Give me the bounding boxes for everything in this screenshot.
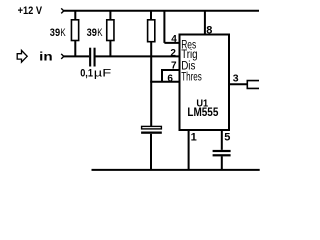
svg-text:3: 3 bbox=[233, 73, 239, 85]
svg-text:4: 4 bbox=[171, 34, 177, 45]
svg-text:Trig: Trig bbox=[181, 49, 197, 61]
svg-text:+12 V: +12 V bbox=[18, 5, 43, 17]
svg-text:K: K bbox=[97, 27, 103, 39]
svg-text:2: 2 bbox=[170, 48, 176, 59]
svg-text:5: 5 bbox=[224, 131, 230, 143]
svg-text:in: in bbox=[39, 50, 53, 64]
svg-text:39: 39 bbox=[87, 27, 97, 39]
svg-text:7: 7 bbox=[171, 61, 177, 72]
svg-text:LM555: LM555 bbox=[187, 105, 218, 119]
svg-text:Thres: Thres bbox=[181, 71, 202, 83]
svg-text:0,1: 0,1 bbox=[80, 67, 93, 79]
svg-text:1: 1 bbox=[191, 131, 197, 143]
svg-text:39: 39 bbox=[50, 27, 60, 39]
svg-text:8: 8 bbox=[206, 25, 212, 37]
svg-text:6: 6 bbox=[167, 73, 173, 84]
svg-text:K: K bbox=[60, 27, 66, 39]
svg-text:µF: µF bbox=[94, 67, 112, 79]
